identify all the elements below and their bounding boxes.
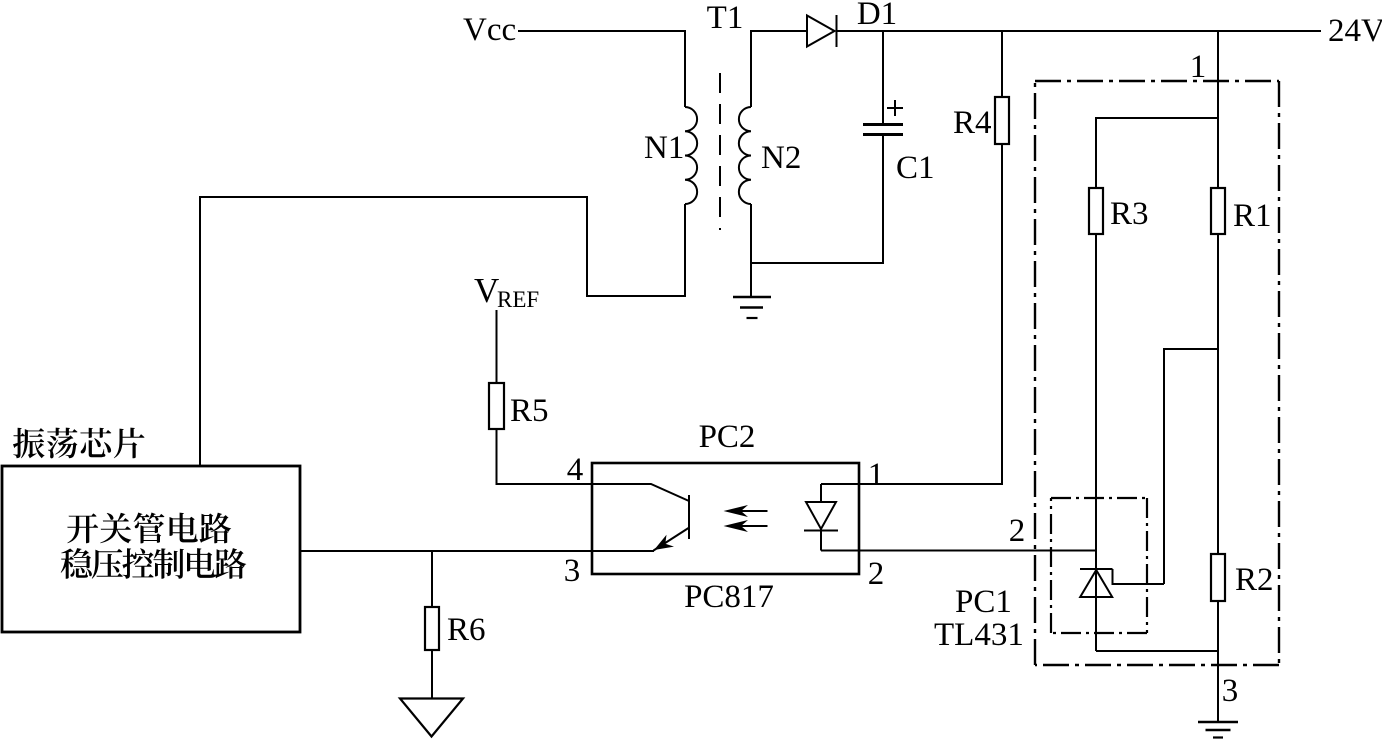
LED vertical wire xyxy=(820,484,822,551)
wire rail to C1 xyxy=(882,31,884,123)
wire C1 bottom to N2 bottom xyxy=(751,136,883,263)
emitter arrowhead xyxy=(654,535,674,550)
wire R3 bottom to TL431 cathode xyxy=(1095,234,1097,651)
svg-text:R5: R5 xyxy=(510,393,549,429)
TL431 anode wire to R2 bottom xyxy=(1096,650,1218,652)
svg-text:PC817: PC817 xyxy=(684,579,774,615)
wire R5 to PC2 pin4 / phototransistor collector xyxy=(497,429,690,501)
wire R1 bottom to R2 top xyxy=(1217,234,1219,554)
light arrow upper xyxy=(734,510,768,512)
resistor R3 xyxy=(1089,188,1103,234)
capacitor C1 plus sign xyxy=(887,100,903,116)
svg-text:N1: N1 xyxy=(644,130,684,166)
svg-text:1: 1 xyxy=(868,457,885,493)
svg-text:4: 4 xyxy=(567,452,584,488)
light arrow lower xyxy=(734,525,768,527)
svg-text:2: 2 xyxy=(1009,513,1026,549)
wire PC2 pin2 to TL431 xyxy=(821,550,1096,552)
svg-text:C1: C1 xyxy=(896,150,935,186)
svg-text:Vcc: Vcc xyxy=(463,12,516,48)
LED triangle xyxy=(806,502,836,529)
ground under N2 xyxy=(733,297,771,318)
dash-dot TL431 box xyxy=(1051,498,1147,633)
resistor R6 xyxy=(431,551,433,607)
svg-text:R3: R3 xyxy=(1110,196,1149,232)
capacitor C1 xyxy=(863,125,903,135)
svg-text:3: 3 xyxy=(1222,673,1239,709)
transformer T1 primary winding N1 xyxy=(685,107,697,204)
wire N1 bottom to oscillator box xyxy=(200,197,685,466)
TL431 U1 triangle xyxy=(1080,570,1112,597)
phototransistor emitter xyxy=(654,528,689,551)
svg-text:T1: T1 xyxy=(707,0,744,36)
resistor R1 xyxy=(1211,188,1225,234)
phototransistor base bar xyxy=(688,495,690,539)
wire R1/R2 node to TL431 ref xyxy=(1164,349,1218,584)
wire R4 bottom to PC2 pin1 xyxy=(821,144,1002,484)
label 振荡芯片 xyxy=(13,428,145,459)
wire diode to 24V rail xyxy=(836,30,1321,32)
svg-text:TL431: TL431 xyxy=(934,617,1024,653)
wire Vcc to T1 primary top xyxy=(518,31,685,107)
ground triangle xyxy=(400,699,463,737)
svg-text:R6: R6 xyxy=(447,612,486,648)
svg-text:R1: R1 xyxy=(1233,198,1272,234)
svg-text:1: 1 xyxy=(1190,49,1207,85)
svg-text:V: V xyxy=(474,271,499,310)
diode D1 xyxy=(807,16,835,47)
svg-text:PC2: PC2 xyxy=(699,419,756,455)
wire N2 top to diode anode xyxy=(751,31,807,107)
svg-text:N2: N2 xyxy=(761,140,801,176)
svg-text:R2: R2 xyxy=(1235,562,1274,598)
wire R6 to ground triangle xyxy=(431,650,433,698)
resistor R4 xyxy=(1001,31,1003,97)
wire VREF to R5 xyxy=(496,310,498,383)
ground bottom right xyxy=(1198,722,1238,738)
wire N2 bottom to ground xyxy=(750,204,752,296)
oscillator chip box xyxy=(2,466,300,632)
box text 稳压控制电路 xyxy=(61,548,247,579)
TL431 U1 cathode bar xyxy=(1080,568,1113,570)
wire 24V rail down right branch xyxy=(1217,31,1219,188)
svg-text:24V: 24V xyxy=(1328,13,1382,49)
svg-text:REF: REF xyxy=(497,287,539,312)
resistor R2 xyxy=(1211,554,1225,601)
box text 开关管电路 xyxy=(67,513,231,544)
resistor R5 xyxy=(489,383,504,429)
wire R2 bottom to ground xyxy=(1217,601,1219,721)
wire inner top to R3 xyxy=(1096,118,1218,188)
optocoupler PC2 box xyxy=(592,463,859,574)
transformer T1 secondary winding N2 xyxy=(739,107,751,204)
TL431 ref step wire xyxy=(1113,569,1165,584)
svg-text:2: 2 xyxy=(868,556,885,592)
wire oscillator box to PC2 pin3 xyxy=(300,550,654,552)
svg-text:PC1: PC1 xyxy=(955,584,1012,620)
dash-dot module box xyxy=(1035,81,1279,665)
svg-text:3: 3 xyxy=(564,553,581,589)
LED cathode bar xyxy=(804,530,838,532)
svg-text:R4: R4 xyxy=(953,105,992,141)
transformer core dashed line xyxy=(719,73,721,230)
svg-text:D1: D1 xyxy=(857,0,897,32)
